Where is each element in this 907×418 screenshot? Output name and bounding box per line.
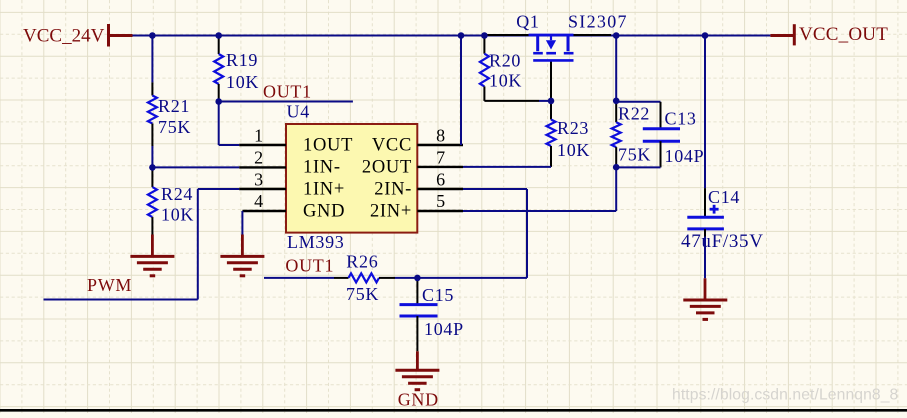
svg-text:R23: R23 xyxy=(557,118,589,138)
svg-text:47uF/35V: 47uF/35V xyxy=(681,231,764,252)
svg-text:LM393: LM393 xyxy=(287,232,345,252)
svg-text:10K: 10K xyxy=(489,71,522,91)
svg-text:C13: C13 xyxy=(665,108,697,128)
svg-text:U4: U4 xyxy=(287,102,310,122)
svg-text:2: 2 xyxy=(254,147,264,167)
svg-text:R24: R24 xyxy=(161,184,193,204)
svg-text:104P: 104P xyxy=(424,319,464,339)
svg-text:75K: 75K xyxy=(158,117,191,137)
svg-text:https://blog.csdn.net/Lennqn8_: https://blog.csdn.net/Lennqn8_8 xyxy=(672,387,899,404)
svg-text:VCC_24V: VCC_24V xyxy=(23,26,105,47)
svg-text:1IN-: 1IN- xyxy=(303,158,341,178)
svg-text:104P: 104P xyxy=(665,146,705,166)
svg-text:75K: 75K xyxy=(618,145,651,165)
svg-text:R22: R22 xyxy=(618,104,650,124)
svg-text:10K: 10K xyxy=(161,205,194,225)
svg-text:10K: 10K xyxy=(226,72,259,92)
svg-text:VCC: VCC xyxy=(372,136,412,156)
svg-text:R19: R19 xyxy=(226,50,258,70)
svg-text:7: 7 xyxy=(436,147,446,167)
svg-text:4: 4 xyxy=(254,191,264,211)
svg-text:2IN-: 2IN- xyxy=(374,180,412,200)
svg-text:5: 5 xyxy=(436,191,446,211)
svg-text:OUT1: OUT1 xyxy=(263,81,312,101)
svg-text:GND: GND xyxy=(398,390,439,410)
svg-text:1: 1 xyxy=(254,126,264,146)
svg-text:OUT1: OUT1 xyxy=(285,255,334,275)
svg-text:R21: R21 xyxy=(158,96,190,116)
svg-text:SI2307: SI2307 xyxy=(568,12,628,32)
svg-text:GND: GND xyxy=(303,201,345,221)
svg-text:2OUT: 2OUT xyxy=(362,158,412,178)
svg-text:1OUT: 1OUT xyxy=(303,136,353,156)
svg-text:PWM: PWM xyxy=(87,275,132,295)
svg-text:3: 3 xyxy=(254,169,264,189)
svg-text:R26: R26 xyxy=(346,252,378,272)
svg-text:Q1: Q1 xyxy=(516,12,539,32)
svg-text:VCC_OUT: VCC_OUT xyxy=(799,24,888,45)
svg-text:1IN+: 1IN+ xyxy=(303,180,345,200)
svg-text:2IN+: 2IN+ xyxy=(370,201,412,221)
svg-text:C15: C15 xyxy=(422,285,454,305)
svg-text:8: 8 xyxy=(436,126,446,146)
svg-text:10K: 10K xyxy=(557,140,590,160)
svg-text:75K: 75K xyxy=(346,284,379,304)
svg-text:C14: C14 xyxy=(708,187,740,207)
svg-text:6: 6 xyxy=(436,169,446,189)
svg-text:R20: R20 xyxy=(489,51,521,71)
